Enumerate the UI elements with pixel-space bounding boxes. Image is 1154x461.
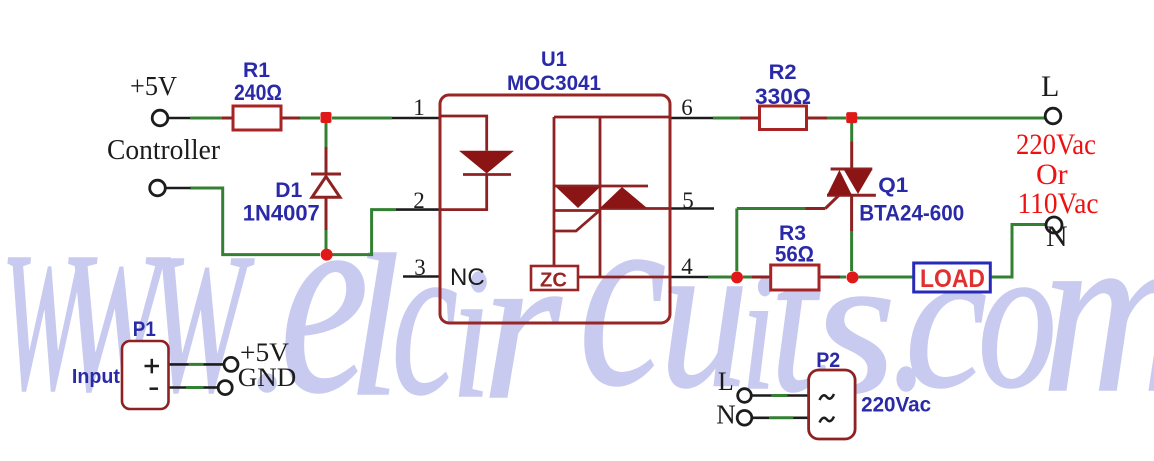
svg-text:Input: Input (72, 366, 120, 388)
svg-text:+5V: +5V (130, 71, 177, 101)
svg-text:240Ω: 240Ω (234, 80, 282, 105)
svg-text:4: 4 (681, 254, 693, 279)
svg-text:N: N (716, 400, 736, 430)
svg-text:220Vac: 220Vac (1016, 128, 1096, 161)
svg-text:6: 6 (681, 95, 693, 120)
svg-text:LOAD: LOAD (920, 265, 985, 293)
svg-text:MOC3041: MOC3041 (507, 72, 601, 95)
svg-text:ZC: ZC (540, 270, 567, 292)
svg-text:P1: P1 (133, 318, 156, 341)
svg-text:R1: R1 (243, 59, 270, 82)
svg-text:L: L (1041, 70, 1059, 103)
svg-text:R2: R2 (769, 61, 797, 84)
svg-text:330Ω: 330Ω (755, 84, 811, 109)
svg-text:2: 2 (413, 188, 425, 213)
svg-text:5: 5 (682, 188, 694, 213)
svg-text:U1: U1 (541, 48, 567, 71)
svg-text:3: 3 (414, 255, 426, 280)
svg-text:P2: P2 (816, 349, 840, 372)
svg-text:56Ω: 56Ω (775, 242, 814, 267)
svg-text:1N4007: 1N4007 (243, 201, 320, 226)
svg-text:110Vac: 110Vac (1018, 187, 1099, 220)
svg-text:BTA24-600: BTA24-600 (859, 200, 964, 225)
svg-text:L: L (718, 367, 734, 396)
svg-text:GND: GND (238, 363, 296, 392)
svg-text:220Vac: 220Vac (861, 394, 931, 417)
svg-text:D1: D1 (275, 179, 302, 202)
svg-text:1: 1 (413, 95, 425, 120)
svg-text:Controller: Controller (107, 135, 221, 166)
svg-text:Q1: Q1 (878, 174, 908, 197)
svg-text:N: N (1046, 220, 1068, 253)
svg-text:NC: NC (450, 264, 485, 291)
